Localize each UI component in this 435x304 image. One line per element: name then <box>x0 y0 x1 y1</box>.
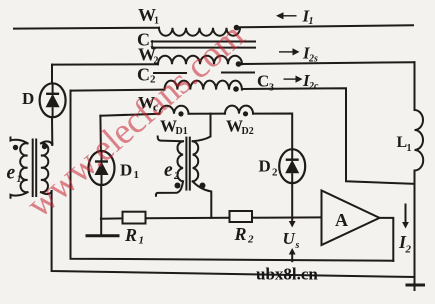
svg-text:D1: D1 <box>176 126 188 137</box>
svg-text:1: 1 <box>134 169 140 181</box>
svg-text:1: 1 <box>407 143 412 154</box>
svg-text:R: R <box>124 225 137 245</box>
svg-text:A: A <box>335 210 348 230</box>
svg-text:1: 1 <box>139 235 145 247</box>
svg-text:U: U <box>283 229 296 248</box>
svg-text:e: e <box>7 163 16 184</box>
svg-text:2c: 2c <box>308 81 319 92</box>
svg-text:2: 2 <box>150 74 156 86</box>
svg-text:1: 1 <box>17 174 22 185</box>
svg-text:2: 2 <box>173 171 179 182</box>
svg-text:s: s <box>295 240 300 251</box>
svg-text:D2: D2 <box>242 126 254 137</box>
svg-text:2: 2 <box>405 244 412 256</box>
svg-text:3: 3 <box>269 83 274 94</box>
svg-text:1: 1 <box>309 16 314 27</box>
svg-text:C: C <box>257 72 269 91</box>
svg-text:c: c <box>153 102 158 114</box>
svg-text:2: 2 <box>272 167 278 179</box>
svg-text:D: D <box>259 157 271 176</box>
svg-text:2s: 2s <box>308 54 318 65</box>
svg-text:W: W <box>226 117 243 136</box>
svg-text:2: 2 <box>247 234 254 246</box>
svg-text:C: C <box>137 65 150 85</box>
svg-text:ubx8l.cn: ubx8l.cn <box>256 265 318 284</box>
svg-text:D: D <box>120 161 132 180</box>
svg-text:D: D <box>22 89 34 108</box>
svg-text:W: W <box>160 117 177 136</box>
svg-text:1: 1 <box>154 16 159 27</box>
svg-text:R: R <box>234 224 247 244</box>
svg-text:2: 2 <box>154 56 159 67</box>
svg-text:e: e <box>164 160 173 181</box>
